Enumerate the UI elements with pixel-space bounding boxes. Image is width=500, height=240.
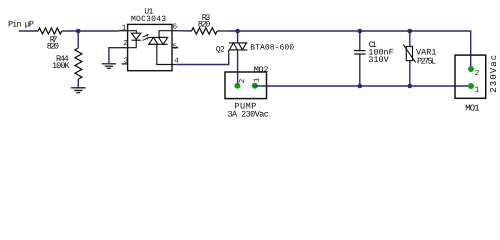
wire R7 to U1 pin1	[66, 30, 119, 32]
opto arrows	[143, 35, 148, 41]
svg-text:MOC3043: MOC3043	[131, 15, 166, 24]
svg-text:MO1: MO1	[465, 103, 479, 113]
svg-text:2: 2	[238, 79, 247, 84]
resistor R3	[192, 28, 218, 34]
node junction R7/R44	[76, 29, 81, 34]
resistor R7	[38, 28, 62, 34]
wire junction down to R44	[77, 31, 79, 48]
triac inside U1	[148, 31, 172, 65]
svg-text:6: 6	[173, 23, 178, 32]
pin 1	[119, 30, 128, 32]
MO1 pin 1	[468, 83, 474, 89]
pin 4	[172, 64, 176, 66]
svg-text:230Vac: 230Vac	[489, 55, 499, 93]
wire junction to Q2	[237, 31, 239, 43]
svg-text:Q2: Q2	[216, 45, 225, 54]
wire R3 to top bus / MO1	[227, 31, 471, 69]
wire Q2 gate to U1 pin4	[176, 52, 228, 64]
wire Q2 MT1 to MO2	[237, 50, 239, 86]
MO2 pin 1	[252, 83, 258, 89]
wire U1 pin6 to R3	[178, 30, 191, 32]
pin 6	[172, 30, 178, 32]
svg-text:1: 1	[253, 77, 261, 82]
connector MO2 box	[225, 72, 267, 99]
op-amp U1 optocoupler box	[128, 24, 172, 70]
svg-text:820: 820	[47, 42, 59, 52]
svg-text:BTA08-600: BTA08-600	[250, 43, 294, 52]
svg-text:Pin µP: Pin µP	[8, 20, 34, 30]
svg-text:2: 2	[123, 39, 128, 48]
svg-text:MO2: MO2	[254, 65, 269, 75]
svg-text:P275L: P275L	[417, 57, 436, 67]
node junction triac MT2	[235, 29, 240, 34]
ground below R44	[71, 88, 86, 93]
svg-text:2: 2	[475, 69, 480, 78]
capacitor C1	[359, 31, 361, 86]
LED inside U1	[128, 31, 141, 48]
svg-text:3: 3	[124, 56, 129, 65]
wire R44 to ground	[77, 79, 79, 87]
svg-text:820: 820	[198, 19, 211, 29]
svg-text:1: 1	[475, 86, 480, 94]
pin 5	[172, 47, 178, 49]
connector MO1 box	[455, 55, 486, 98]
svg-text:5: 5	[173, 44, 178, 52]
varistor VAR1	[409, 31, 411, 46]
pin 3	[122, 63, 128, 65]
svg-text:310V: 310V	[368, 55, 389, 65]
ground at U1 pin2	[109, 48, 128, 64]
MO1 pin 2	[468, 66, 474, 72]
MO2 pin 2	[234, 83, 240, 89]
svg-text:1: 1	[122, 24, 127, 32]
resistor R44	[75, 48, 82, 79]
transistor Q2 triac	[228, 43, 247, 52]
svg-text:3A 230Vac: 3A 230Vac	[228, 110, 269, 120]
wire bottom bus MO2 to MO1	[255, 85, 471, 87]
wire Pin uP to R7	[19, 30, 39, 32]
svg-text:100K: 100K	[52, 61, 70, 71]
